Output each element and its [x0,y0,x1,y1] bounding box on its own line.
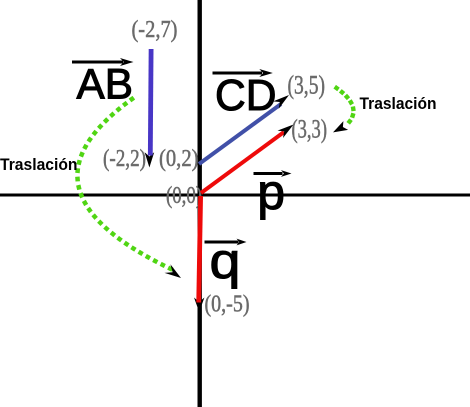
svg-text:q: q [210,233,241,289]
svg-text:(3,5): (3,5) [288,71,326,100]
svg-text:(0,-5): (0,-5) [205,292,250,318]
svg-text:AB: AB [77,60,134,108]
svg-text:p: p [257,164,285,220]
svg-text:CD: CD [215,72,277,120]
svg-text:(3,3): (3,3) [292,115,328,144]
svg-text:Traslación: Traslación [0,155,78,174]
svg-text:(-2,2): (-2,2) [103,146,146,172]
svg-text:(0,2): (0,2) [159,146,199,172]
svg-text:(-2,7): (-2,7) [132,17,178,43]
svg-text:Traslación: Traslación [360,94,437,113]
svg-text:(0,0): (0,0) [166,183,202,209]
